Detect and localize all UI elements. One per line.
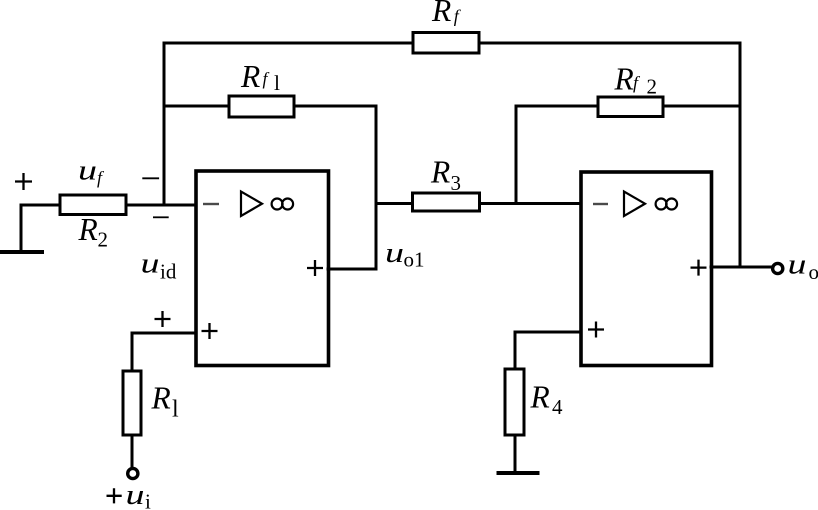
svg-text:u: u bbox=[788, 249, 807, 281]
svg-text:R: R bbox=[240, 59, 260, 94]
svg-text:o: o bbox=[809, 260, 818, 284]
svg-text:R: R bbox=[430, 155, 450, 190]
svg-text:u: u bbox=[78, 155, 97, 187]
svg-text:R: R bbox=[78, 212, 98, 247]
svg-text:R: R bbox=[530, 380, 550, 415]
svg-text:u: u bbox=[141, 248, 160, 280]
svg-text:R: R bbox=[151, 381, 171, 416]
svg-text:R: R bbox=[614, 62, 634, 97]
svg-text:l: l bbox=[274, 71, 280, 95]
svg-text:4: 4 bbox=[552, 395, 563, 419]
svg-text:u: u bbox=[385, 237, 404, 269]
svg-text:i: i bbox=[145, 490, 151, 510]
svg-text:o1: o1 bbox=[404, 248, 425, 272]
svg-text:id: id bbox=[160, 260, 177, 284]
svg-text:R: R bbox=[431, 0, 451, 28]
svg-text:l: l bbox=[172, 397, 179, 423]
svg-text:3: 3 bbox=[451, 171, 462, 195]
svg-text:2: 2 bbox=[647, 75, 658, 99]
svg-text:2: 2 bbox=[98, 228, 109, 252]
svg-text:u: u bbox=[126, 479, 145, 510]
